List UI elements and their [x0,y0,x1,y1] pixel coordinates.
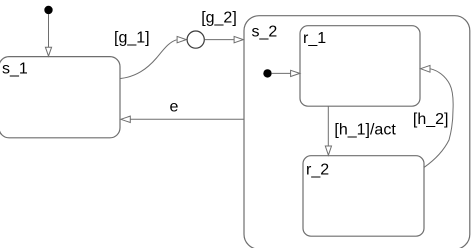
svg-text:[h_1]/act: [h_1]/act [334,122,396,139]
initial state dot (outer) [44,6,52,14]
arrowhead into s_1 [45,47,51,56]
transition [g_1] wire [121,40,177,79]
arrowhead into r_1 [291,70,300,76]
arrowhead [h_2] into r_1 [421,65,431,72]
svg-text:[h_2]: [h_2] [413,111,449,128]
svg-text:r_2: r_2 [306,161,329,178]
transition [g_2] wire [205,39,234,41]
state s_2 [244,16,470,248]
junction circle [187,31,204,48]
svg-text:s_2: s_2 [252,24,278,41]
svg-text:[g_2]: [g_2] [201,9,237,26]
initial state dot inside s_2 [263,69,271,77]
transition [h_1]/act wire [327,106,329,146]
state r_2 [303,156,424,237]
arrowhead [g_1] into junction [177,36,186,42]
state r_1 [300,26,420,107]
svg-text:r_1: r_1 [303,30,326,47]
svg-text:e: e [170,99,179,116]
wire initial to r_1 [272,72,291,74]
svg-text:[g_1]: [g_1] [114,29,150,46]
transition e wire [130,118,244,120]
transition [h_2] wire [424,69,453,168]
arrowhead e into s_1 [121,116,131,122]
arrowhead [h_1] into r_2 [325,146,331,155]
state s_1 [0,57,120,138]
wire initial to s_1 [48,14,50,48]
svg-text:s_1: s_1 [2,61,28,78]
arrowhead [g_2] into s_2 [234,36,243,42]
